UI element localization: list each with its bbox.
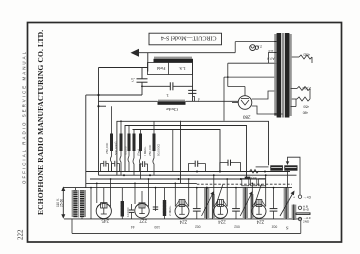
svg-text:45Ω: 45Ω [303,53,310,57]
capacitor link (far left 2) [112,161,120,172]
resistor bank: R3 [128,126,131,172]
svg-text:L.S.: L.S. [179,66,186,71]
wire long vertical left A [98,68,100,176]
svg-text:Choke: Choke [166,107,178,112]
band switch contacts [242,179,266,186]
page border frame [28,23,342,243]
wire resistor-bank feed [99,105,107,107]
resistor bank: R6 [148,121,160,175]
wire hook to terminals [286,157,300,195]
IF coil 2 [243,187,254,219]
svg-text:100: 100 [154,225,160,229]
wire choke right connection [193,97,195,102]
switch contact blob [245,177,251,180]
svg-text:245: 245 [101,218,109,223]
sidebar text OFFICIAL RADIO SERVICE MANUAL [22,50,27,184]
capacitor link (mid) [140,161,148,171]
volume control label strip 2 [284,165,297,187]
svg-text:280: 280 [243,114,251,119]
tube 224 first [175,200,189,224]
resistor 25000 [247,167,269,180]
svg-text:ECHOPHONE RADIO MANUFACTURING: ECHOPHONE RADIO MANUFACTURING CO. LTD. [36,30,45,215]
wire drop from arrow line [147,53,149,72]
svg-text:2,500: 2,500 [302,86,311,90]
sidebar title ECHOPHONE RADIO MANUFACTURING CO. LTD. [36,30,45,215]
wire bus 2 [99,174,297,176]
svg-text:OFFICIAL RADIO SERVICE MANUAL: OFFICIAL RADIO SERVICE MANUAL [22,50,27,184]
wire bus 3b [86,182,197,184]
capacitor stage 3 [270,201,278,228]
wire long vertical left B [85,95,87,188]
wire top-left horizontal [99,67,148,69]
capacitor stage 1 [193,201,201,228]
resistor bank: R4 [133,130,141,176]
antenna coil [284,187,289,231]
node dots on buses [90,171,274,189]
svg-text:500,000Ω: 500,000Ω [114,141,118,155]
svg-text:44: 44 [131,225,135,229]
svg-text:2 MEG.: 2 MEG. [168,205,172,216]
resistor hum balancer [291,86,311,115]
choke (speaker) winding [158,100,186,113]
capacitor det coupling [153,205,160,229]
wire 245 grid stub [103,188,105,203]
choke L.S. Field winding [154,57,194,63]
wire bus 3 [90,178,265,180]
svg-text:002: 002 [272,224,278,228]
power transformer primary winding [274,33,281,118]
wire 280 top feed [227,42,245,96]
svg-text:2.6: 2.6 [257,44,262,48]
svg-text:.5: .5 [131,76,135,81]
power transformer core [282,33,283,118]
svg-text:,j: ,j [198,97,200,103]
oscillator coil (right) [292,204,297,220]
wire B+ loop inner [133,121,221,184]
terminal 1 (+D) [293,195,312,199]
resistor bank: R2 [120,120,128,175]
tube 224 third [252,200,266,224]
tuning arrow coil 2 [240,191,253,216]
capacitor .5 [131,68,148,96]
wire: arrow to remote chassis [131,49,236,57]
wire jog between verticals [86,94,142,96]
wire from L.S. field down to choke line [192,63,194,102]
svg-text:2ND: 2ND [303,219,310,223]
resistor bank: R1 [105,106,118,171]
capacitor link (far left) [101,161,109,172]
svg-text:B+D: B+D [303,208,310,212]
svg-text:+: + [293,195,295,199]
gang capacitor mechanical link (dashed) [197,183,292,185]
resistor grid leak [163,188,172,219]
resistor bias (left) [121,188,130,219]
svg-text:→+D: →+D [303,195,312,199]
tube 245 (output) [96,203,111,223]
svg-text:Field: Field [156,66,166,71]
wire B+ loop middle [125,126,247,178]
wire drops to tube row [91,175,274,219]
resistor bank: R5 [139,130,147,180]
svg-text:450: 450 [303,105,309,109]
wire transformer taps left [224,52,277,120]
tuning arrow coil 1 [202,191,215,216]
capacitor stage 2 [232,201,240,228]
chassis bus bottom [72,219,301,234]
pilot lamp [235,42,276,61]
power transformer secondary winding [285,33,292,118]
tube 224 second [214,200,228,224]
tuning arrow on antenna coil [280,191,295,217]
label box L.S. Field [148,63,193,75]
svg-text:/ MEG.: / MEG. [143,146,147,156]
power line transformer winding [72,188,86,219]
capacitor 1 (series coupling) [142,82,193,98]
tube 280 rectifier [238,96,252,119]
svg-text:25-60: 25-60 [60,199,64,207]
wire bus 1 [86,171,290,173]
label box CIRCUIT Model S-4 [149,33,222,45]
resistor 45 ohm (filament CT) [291,53,312,64]
wire terminal to chassis bus [300,221,302,234]
capacitor on L.S. lead [188,90,200,103]
terminal 2 [298,204,310,211]
filament bus [64,218,302,220]
grid cap wire diagonal 1 [216,184,223,205]
svg-text:002: 002 [234,224,240,228]
wire B+ loop outer [117,121,269,175]
svg-text:250,000: 250,000 [105,143,109,154]
label strip between terminals [296,212,311,215]
wire 227 grid stub [141,191,143,203]
capacitor link (right) [220,160,241,172]
grid cap wire diagonal 2 [255,184,262,205]
svg-text:250,000: 250,000 [148,145,152,156]
volume control label strip 1 [270,165,283,170]
page number 222 [16,229,24,240]
svg-text:S: S [286,226,289,231]
tube 227 (detector) [135,203,149,223]
capacitor link (left) [188,161,205,172]
trimmer arrow (line input) [56,187,65,219]
wire 280 plate leads [232,91,283,114]
terminal 3 [298,216,311,223]
IF coil 1 [204,187,215,219]
svg-text:222: 222 [16,229,24,240]
svg-text:002: 002 [195,224,201,228]
svg-text:480: 480 [302,111,308,115]
node dot B [97,105,99,107]
svg-text:1.: 1. [166,93,169,98]
wire choke feed line [99,100,239,102]
node dot A [97,94,99,96]
capacitor 44 [129,204,135,229]
wire bus 4 (antenna/grid return) [63,187,292,189]
svg-text:CIRCUIT—Model S-4: CIRCUIT—Model S-4 [161,35,217,41]
svg-text:50,000Ω: 50,000Ω [157,144,161,156]
svg-text:227: 227 [139,217,147,222]
